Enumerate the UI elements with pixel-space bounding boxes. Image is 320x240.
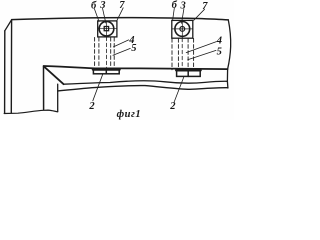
rail front-top edge <box>64 81 228 85</box>
beam left end chamfer <box>5 20 12 31</box>
left shaft dot <box>106 28 108 30</box>
leader line b right <box>173 8 175 20</box>
hanger hidden lines left pair B <box>110 37 112 69</box>
svg-text:4: 4 <box>216 36 222 47</box>
leader line 7 right <box>194 9 205 20</box>
right vertical axis <box>181 21 183 38</box>
right shaft ring <box>180 27 185 32</box>
leader line 3 left <box>103 8 106 23</box>
hanger hidden lines right pair A <box>171 39 173 70</box>
top beam edge <box>12 18 229 20</box>
left vertical axis <box>106 21 108 37</box>
svg-text:7: 7 <box>119 0 125 11</box>
column outer edge <box>4 31 6 114</box>
rail right end edge <box>227 20 230 88</box>
hanger hidden lines left pair A <box>94 37 96 69</box>
rail left leg outer edge <box>43 66 45 110</box>
leader line b left <box>94 9 99 22</box>
leader line 3 right <box>182 9 184 23</box>
leader line 2 left <box>93 74 103 101</box>
leader line 5 right <box>188 50 216 59</box>
svg-text:5: 5 <box>217 47 222 58</box>
svg-text:3: 3 <box>99 0 105 11</box>
column inner edge <box>10 20 12 113</box>
rail left leg inner edge <box>57 84 59 111</box>
rail back-top edge <box>44 66 228 69</box>
svg-text:3: 3 <box>180 0 186 11</box>
left horizontal axis <box>98 28 117 30</box>
hanger hidden lines right pair B <box>187 39 189 70</box>
right clamp foot <box>176 70 200 76</box>
left clamp foot <box>93 69 120 74</box>
leader line 4 left <box>113 40 128 47</box>
leader line 5 left <box>113 48 130 55</box>
base line <box>4 110 58 113</box>
left roller circle <box>99 21 114 36</box>
rail front-bottom edge <box>58 86 228 91</box>
left axis hidden line <box>105 37 107 69</box>
rail left corner chamfer <box>44 67 64 85</box>
leader line 2 right <box>174 77 184 102</box>
svg-text:б: б <box>91 0 97 11</box>
right shaft dot <box>182 28 184 30</box>
svg-text:2: 2 <box>88 101 95 112</box>
svg-text:фиг1: фиг1 <box>117 109 141 120</box>
leader line 7 left <box>117 8 124 21</box>
left bracket housing box <box>98 21 117 37</box>
right bracket housing box <box>172 20 193 38</box>
svg-text:7: 7 <box>202 1 208 12</box>
right horizontal axis <box>172 28 193 30</box>
svg-text:2: 2 <box>169 101 176 112</box>
svg-text:б: б <box>172 0 178 11</box>
svg-text:5: 5 <box>131 43 136 54</box>
left shaft square <box>104 27 108 31</box>
right roller circle <box>175 22 190 37</box>
leader line 4 right <box>186 42 216 53</box>
right axis hidden line <box>181 38 183 70</box>
